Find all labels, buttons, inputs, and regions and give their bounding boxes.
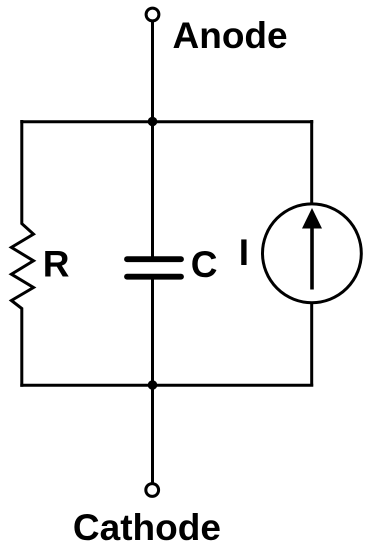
svg-text:C: C	[191, 244, 218, 285]
svg-text:Anode: Anode	[173, 15, 288, 56]
svg-text:R: R	[43, 243, 70, 284]
svg-text:I: I	[239, 232, 249, 273]
svg-text:Cathode: Cathode	[73, 507, 221, 548]
